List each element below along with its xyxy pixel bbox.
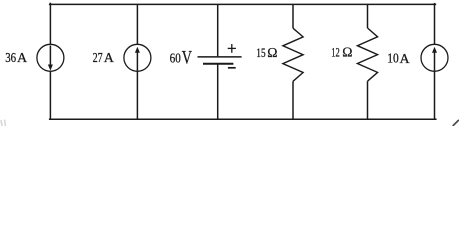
- wire 27A branch lower: [136, 71, 138, 119]
- label 15 Ohm: [256, 46, 277, 61]
- svg-text:A: A: [104, 51, 115, 66]
- plus sign: [228, 44, 236, 53]
- svg-text:V: V: [182, 48, 193, 68]
- resistor R2 12ohm zigzag: [357, 28, 377, 81]
- wire battery branch lower: [217, 64, 219, 119]
- wire 12ohm lead upper: [367, 4, 369, 28]
- svg-text:A: A: [400, 52, 411, 67]
- voltage source V1 60V plate short (-): [203, 63, 233, 65]
- faint bottom-left smudge: [1, 120, 6, 127]
- svg-text:36: 36: [5, 50, 16, 65]
- wire battery branch upper: [217, 4, 219, 56]
- wire right (10A branch lower): [434, 71, 436, 119]
- voltage source V1 60V plate long (+): [198, 56, 242, 58]
- label 27A: [93, 50, 115, 66]
- svg-text:12: 12: [331, 46, 340, 60]
- wire 27A branch upper: [136, 4, 138, 44]
- svg-text:27: 27: [93, 50, 103, 65]
- svg-text:60: 60: [170, 51, 181, 66]
- current source I3 10A circle: [421, 44, 448, 71]
- svg-text:A: A: [17, 51, 28, 66]
- current source I1 36A circle: [37, 44, 64, 71]
- wire left (36A branch lower): [49, 71, 51, 119]
- resistor R1 15ohm zigzag: [283, 28, 303, 81]
- wire top rail: [49, 3, 436, 5]
- svg-text:10: 10: [387, 51, 399, 66]
- label 36A: [5, 50, 28, 66]
- label 60V: [170, 48, 193, 68]
- label 10A: [387, 51, 410, 67]
- minus sign: [228, 67, 236, 69]
- current source I3 10A arrow (up): [432, 47, 437, 71]
- current source I2 27A circle: [124, 44, 151, 71]
- current source I1 36A arrow (down): [48, 46, 53, 71]
- wire bottom rail: [49, 118, 437, 120]
- current source I2 27A arrow (up): [135, 47, 140, 71]
- wire right (10A branch upper): [434, 3, 436, 45]
- wire 15ohm lead upper: [292, 4, 294, 28]
- wire 15ohm lead lower: [292, 81, 294, 119]
- svg-text:Ω: Ω: [267, 46, 277, 61]
- faint bottom-right diagonal mark: [453, 120, 458, 125]
- label 12 Ohm: [331, 46, 352, 61]
- wire 12ohm lead lower: [367, 81, 369, 119]
- svg-text:Ω: Ω: [342, 46, 352, 61]
- svg-text:15: 15: [256, 46, 265, 60]
- wire left (36A branch upper): [49, 3, 51, 45]
